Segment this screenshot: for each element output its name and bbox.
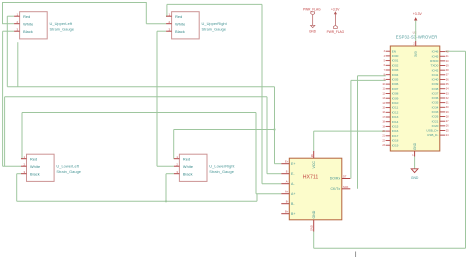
svg-text:IO41: IO41: [432, 73, 439, 77]
svg-text:E+: E+: [291, 162, 295, 166]
svg-text:A+: A+: [285, 190, 289, 194]
svg-text:IO04: IO04: [392, 73, 399, 77]
svg-text:VCC: VCC: [312, 161, 316, 169]
svg-text:38: 38: [446, 69, 449, 72]
svg-text:IO42: IO42: [432, 68, 439, 72]
svg-text:6: 6: [384, 64, 386, 67]
svg-text:IO00: IO00: [392, 54, 399, 58]
svg-text:IO37: IO37: [432, 91, 439, 95]
svg-text:21: 21: [382, 135, 385, 138]
svg-text:White: White: [23, 22, 33, 26]
svg-text:14: 14: [382, 102, 385, 105]
strain gauge U_UpperLeft: [14, 12, 47, 39]
HX711 module U1: [281, 151, 350, 232]
svg-text:29: 29: [446, 111, 449, 114]
svg-text:32: 32: [446, 97, 449, 100]
svg-text:IO20: IO20: [432, 124, 439, 128]
svg-text:IO10: IO10: [392, 101, 399, 105]
svg-text:DO/Rx: DO/Rx: [330, 177, 341, 181]
svg-text:31: 31: [446, 102, 449, 105]
svg-text:USB_D-: USB_D-: [427, 133, 438, 137]
svg-text:GND: GND: [312, 210, 316, 218]
svg-text:GND: GND: [309, 29, 317, 33]
svg-text:IO06: IO06: [392, 82, 399, 86]
svg-text:30: 30: [446, 106, 449, 109]
svg-text:B-: B-: [286, 200, 289, 204]
label U_LowerRight Strain_Gauge: [209, 163, 235, 174]
svg-text:RXD0: RXD0: [430, 59, 439, 63]
svg-text:IO46: IO46: [432, 50, 439, 54]
svg-text:IO13: IO13: [392, 115, 399, 119]
svg-text:ESP32-S3-WROVER: ESP32-S3-WROVER: [396, 34, 438, 39]
junction dot E+ / LR.Red: [273, 128, 275, 130]
svg-text:23: 23: [382, 144, 385, 147]
power flag PWR_FLAG / GND pair: [303, 8, 321, 34]
svg-text:IO01: IO01: [392, 59, 399, 63]
wire LR.Red to E+ vertical: [174, 130, 275, 159]
svg-text:A+: A+: [291, 192, 295, 196]
wire E- net: junction to HX711 E-: [5, 97, 282, 174]
svg-text:40: 40: [446, 60, 449, 63]
svg-text:IO08: IO08: [392, 92, 399, 96]
svg-text:IO38: IO38: [432, 87, 439, 91]
svg-text:A-: A-: [286, 180, 289, 184]
wire UL.Red to HX711 E+ (net E+): [7, 16, 281, 164]
svg-text:IO34: IO34: [432, 105, 439, 109]
svg-text:Black: Black: [175, 30, 185, 34]
svg-text:White: White: [183, 165, 193, 169]
svg-text:CK/Tx: CK/Tx: [330, 187, 340, 191]
svg-text:TXD0: TXD0: [430, 64, 438, 68]
svg-text:+3.3V: +3.3V: [331, 8, 340, 12]
svg-text:26: 26: [446, 125, 449, 128]
wire HX711 SCK to ESP32: [358, 76, 386, 189]
svg-text:IO02: IO02: [392, 63, 399, 67]
svg-text:37: 37: [446, 74, 449, 77]
ESP32 +3.3V power symbol: [413, 12, 423, 41]
svg-text:U_UpperRight: U_UpperRight: [202, 21, 228, 26]
ESP32 right pins: [426, 50, 449, 138]
svg-text:IO18: IO18: [392, 139, 399, 143]
svg-text:IO16: IO16: [392, 129, 399, 133]
svg-text:15: 15: [382, 107, 385, 110]
svg-text:22: 22: [382, 139, 385, 142]
svg-text:IO21: IO21: [432, 119, 439, 123]
svg-text:3V3: 3V3: [414, 51, 418, 57]
svg-text:Strain_Gauge: Strain_Gauge: [56, 169, 81, 174]
svg-text:7: 7: [384, 69, 386, 72]
ESP32 left pins: [382, 49, 398, 147]
svg-text:12: 12: [382, 92, 385, 95]
wire white bus top: UL.White to UR.White: [2, 2, 166, 24]
svg-text:DT: DT: [343, 175, 347, 179]
svg-text:IO45: IO45: [432, 54, 439, 58]
svg-text:U_LowerRight: U_LowerRight: [209, 163, 235, 168]
svg-text:IO03: IO03: [392, 68, 399, 72]
svg-text:U_LowerLeft: U_LowerLeft: [56, 163, 79, 168]
svg-text:19: 19: [382, 125, 385, 128]
wire UR.Red to HX711 A- (net A-): [166, 4, 281, 183]
svg-text:16: 16: [382, 111, 385, 114]
svg-text:GND: GND: [310, 225, 314, 231]
strain gauge U_UpperRight: [166, 12, 199, 39]
svg-text:IO09: IO09: [392, 96, 399, 100]
svg-text:4: 4: [384, 55, 386, 58]
svg-text:GND: GND: [411, 176, 419, 180]
ESP32 bottom pin GND and ground symbol: [411, 142, 419, 180]
svg-text:Red: Red: [175, 15, 182, 19]
svg-text:41: 41: [446, 55, 449, 58]
svg-text:IO14: IO14: [392, 120, 399, 124]
svg-text:IO05: IO05: [392, 78, 399, 82]
strain gauge U_LowerRight: [174, 154, 207, 181]
svg-text:17: 17: [382, 116, 385, 119]
junction dot A+ lower branch: [165, 200, 167, 202]
label U_UpperRight Strain_Gauge: [202, 21, 228, 32]
power symbol +3.3V / PWR_FLAG pair: [327, 8, 345, 34]
label U_LowerLeft Strain_Gauge: [56, 163, 81, 174]
svg-text:SCK: SCK: [343, 185, 349, 189]
svg-text:+3.3V: +3.3V: [413, 12, 423, 16]
svg-text:PWR_FLAG: PWR_FLAG: [327, 30, 345, 34]
svg-text:IO15: IO15: [392, 125, 399, 129]
svg-text:IO11: IO11: [392, 106, 399, 110]
wire UR.Black to LR.White: [157, 31, 174, 166]
svg-text:5: 5: [384, 60, 386, 63]
svg-text:Strain_Gauge: Strain_Gauge: [202, 27, 227, 32]
svg-text:33: 33: [446, 92, 449, 95]
wire HX711 VCC to ESP32: [314, 131, 386, 151]
svg-text:E+: E+: [285, 160, 289, 164]
svg-text:3: 3: [384, 50, 386, 53]
svg-text:IO36: IO36: [432, 96, 439, 100]
sheet marker bottom: [355, 252, 357, 257]
svg-text:IO39: IO39: [432, 82, 439, 86]
svg-text:18: 18: [382, 121, 385, 124]
svg-text:IO35: IO35: [432, 101, 439, 105]
svg-text:28: 28: [446, 115, 449, 118]
svg-text:IO12: IO12: [392, 110, 399, 114]
wire LL.Black / LR.Black to A+ lower branch: [17, 174, 257, 202]
wire stub below UL gauge: [17, 42, 19, 86]
svg-text:IO40: IO40: [432, 78, 439, 82]
svg-text:Red: Red: [183, 157, 190, 161]
svg-text:25: 25: [446, 129, 449, 132]
svg-text:IO07: IO07: [392, 87, 399, 91]
svg-text:USB_D+: USB_D+: [426, 129, 438, 133]
svg-text:24: 24: [446, 134, 449, 137]
svg-text:39: 39: [446, 64, 449, 67]
svg-text:Strain_Gauge: Strain_Gauge: [209, 169, 234, 174]
svg-text:IO17: IO17: [392, 134, 399, 138]
svg-text:B+: B+: [285, 210, 289, 214]
svg-text:Black: Black: [30, 172, 40, 176]
wire LL.Red to HX711 A+ (net A+): [22, 113, 281, 194]
svg-text:Black: Black: [183, 172, 193, 176]
wire HX711 GND to ESP32 right pin 1 (GND loop): [314, 51, 466, 248]
svg-text:GND: GND: [413, 142, 417, 150]
ESP32 top pin 3V3: [413, 41, 417, 57]
svg-text:White: White: [30, 165, 40, 169]
svg-text:2: 2: [413, 42, 415, 45]
svg-text:E-: E-: [286, 170, 289, 174]
svg-text:Black: Black: [23, 30, 33, 34]
svg-text:IO19: IO19: [392, 143, 399, 147]
svg-text:White: White: [175, 22, 185, 26]
svg-text:Red: Red: [23, 15, 30, 19]
svg-text:U_UpperLeft: U_UpperLeft: [50, 21, 73, 26]
strain gauge U_LowerLeft: [21, 154, 54, 181]
svg-text:16: 16: [310, 154, 314, 157]
svg-text:Red: Red: [30, 157, 37, 161]
svg-text:13: 13: [382, 97, 385, 100]
svg-text:Strain_Gauge: Strain_Gauge: [50, 27, 75, 32]
svg-text:HX711: HX711: [303, 175, 319, 181]
svg-text:35: 35: [446, 83, 449, 86]
label U_UpperLeft Strain_Gauge: [50, 21, 75, 32]
svg-text:B+: B+: [291, 212, 295, 216]
svg-text:34: 34: [446, 88, 449, 91]
svg-text:IO33: IO33: [432, 110, 439, 114]
svg-text:EN: EN: [392, 49, 396, 53]
wire UL.Black to LL.White: [3, 31, 21, 166]
svg-text:1: 1: [412, 154, 414, 157]
svg-text:27: 27: [446, 120, 449, 123]
svg-text:PWR_FLAG: PWR_FLAG: [303, 8, 321, 12]
svg-text:36: 36: [446, 78, 449, 81]
svg-text:11: 11: [383, 88, 386, 91]
wire HX711 DO to ESP32: [351, 80, 386, 178]
svg-text:IO26: IO26: [432, 115, 439, 119]
ESP32-S3-WROVER module U2: [390, 46, 440, 151]
svg-text:10: 10: [382, 83, 385, 86]
